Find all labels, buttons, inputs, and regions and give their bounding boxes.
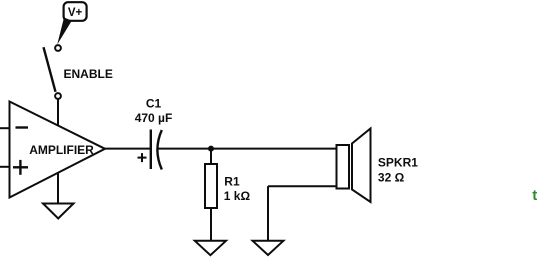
minus sign	[16, 126, 29, 128]
svg-text:C1: C1	[146, 97, 162, 111]
junction node	[208, 146, 214, 152]
op-amp U1 AMPLIFIER	[10, 102, 106, 198]
wire R1 to ground	[210, 208, 212, 241]
switch blade	[44, 47, 56, 92]
wire amplifier to ground	[57, 173, 59, 204]
wire non-inverting input	[0, 166, 10, 168]
switch bottom terminal	[55, 93, 61, 99]
wire junction to speaker	[211, 148, 338, 150]
wire junction to R1	[210, 149, 212, 164]
svg-text:t: t	[532, 187, 537, 204]
power flag V+	[57, 2, 86, 44]
resistor R1	[205, 164, 217, 208]
svg-text:R1: R1	[224, 174, 240, 188]
svg-text:SPKR1: SPKR1	[378, 156, 418, 170]
plus sign	[13, 166, 28, 168]
svg-text:470 µF: 470 µF	[135, 111, 173, 125]
wire speaker return (vertical)	[267, 186, 269, 241]
wire speaker return (horizontal)	[268, 185, 338, 187]
C1 right plate (curved)	[157, 130, 161, 170]
wire amplifier output to C1	[104, 148, 151, 150]
wire inverting input	[0, 127, 10, 129]
svg-text:1 kΩ: 1 kΩ	[224, 189, 251, 203]
svg-text:V+: V+	[68, 7, 83, 19]
capacitor C1	[138, 130, 162, 170]
switch S1 (ENABLE)	[44, 45, 61, 99]
ground (amplifier)	[43, 204, 74, 219]
wire C1 to junction	[158, 148, 211, 150]
C1 left plate	[150, 130, 152, 170]
switch top terminal	[55, 45, 61, 51]
ground (R1)	[195, 241, 226, 255]
svg-text:ENABLE: ENABLE	[64, 67, 113, 81]
wire switch to amplifier	[57, 99, 59, 127]
ground (speaker)	[253, 241, 284, 255]
C1 polarity plus sign	[138, 157, 147, 159]
svg-text:32 Ω: 32 Ω	[378, 171, 405, 185]
speaker SPKR1	[337, 129, 371, 203]
svg-text:AMPLIFIER: AMPLIFIER	[29, 143, 94, 157]
